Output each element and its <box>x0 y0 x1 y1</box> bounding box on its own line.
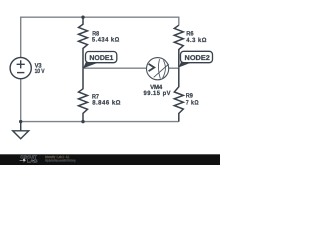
wire voltmeter to NODE2 <box>169 67 179 69</box>
resistor R7 <box>79 68 88 121</box>
resistor R6 <box>174 25 183 67</box>
svg-text:7 kΩ: 7 kΩ <box>186 99 199 106</box>
junction dot bottom middle <box>81 120 84 123</box>
footer bar <box>0 154 220 165</box>
voltage source V3 <box>10 58 31 79</box>
node flag NODE1 pointer <box>83 61 98 69</box>
resistor R9 <box>174 67 183 121</box>
svg-text:99.15 pV: 99.15 pV <box>144 90 172 97</box>
resistor R8 <box>79 17 88 68</box>
voltmeter VM4 <box>147 58 169 80</box>
junction dot top middle <box>81 16 84 19</box>
svg-text:LAB: LAB <box>27 158 39 163</box>
wire top horizontal <box>21 16 179 18</box>
wire NODE1 to voltmeter <box>83 67 147 69</box>
svg-text:5.434 kΩ: 5.434 kΩ <box>92 37 120 44</box>
ground <box>13 122 29 139</box>
svg-text:http://circuitlab.com/c6kk2238: http://circuitlab.com/c6kk2238Yyvqy <box>45 159 76 163</box>
wire right vertical top lead <box>178 17 180 26</box>
svg-text:NODE2: NODE2 <box>185 55 211 62</box>
footer logo LAB <box>20 160 34 162</box>
svg-text:4.3 kΩ: 4.3 kΩ <box>186 37 207 44</box>
node flag NODE1 <box>86 52 117 63</box>
wire bottom horizontal <box>21 121 179 123</box>
node flag NODE2 <box>181 51 213 62</box>
svg-text:NODE1: NODE1 <box>89 55 113 62</box>
wire left vertical upper <box>20 17 22 58</box>
junction dot bottom left <box>19 120 22 123</box>
svg-text:10 V: 10 V <box>35 68 46 75</box>
node flag NODE2 pointer <box>179 60 193 67</box>
svg-text:8.846 kΩ: 8.846 kΩ <box>92 99 121 106</box>
wire left vertical lower <box>20 79 22 131</box>
